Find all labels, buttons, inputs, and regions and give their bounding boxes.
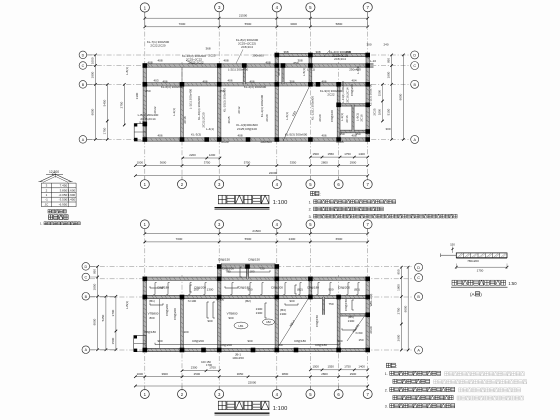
grid bubble A left (top plan) [79,136,87,144]
grid line axis 7 (top plan) [367,12,369,180]
svg-text:1550: 1550 [327,152,334,156]
grid line row D (top plan) [87,54,411,56]
beam row D top edge right section (top plan) [277,53,368,56]
stair diagonal rooms 4-5 (bottom plan) [279,298,309,346]
svg-text:2C8,3C4: 2C8,3C4 [241,45,253,49]
svg-text:1750: 1750 [102,127,106,134]
grid bubble C right (top plan) [411,62,419,70]
svg-text:2800: 2800 [321,161,328,165]
svg-text:KL-1(3) 300x700: KL-1(3) 300x700 [369,84,373,107]
svg-text:900: 900 [228,316,233,320]
svg-text:406: 406 [157,134,162,138]
beam short axis 4b (top plan) [282,66,284,85]
detail title aircon slab 1:50 [452,280,457,285]
svg-text:C8@150: C8@150 [344,299,348,311]
svg-text:1750: 1750 [344,365,351,369]
svg-text:950: 950 [355,132,360,136]
svg-text:1750: 1750 [477,268,484,272]
svg-text:2C22: 2C22 [327,93,335,97]
svg-text:2C18: 2C18 [277,68,281,76]
svg-text:368: 368 [205,47,210,51]
beam row A bottom edge (top plan) [145,138,368,141]
svg-text:L-4(1): L-4(1) [206,127,214,131]
svg-text:750: 750 [259,267,264,271]
svg-text:5800: 5800 [336,22,343,26]
svg-text:9000: 9000 [93,318,97,325]
svg-text:L-11(1) 200x400: L-11(1) 200x400 [341,81,345,103]
left dimension chain (top plan) [95,55,97,139]
beam right edge axis 7 (top plan) [366,55,369,140]
svg-text:D: D [413,54,416,58]
beam axis 5 upper (top plan) [309,55,312,84]
beam row D raised section (bottom plan) [219,265,277,268]
svg-text:1:100: 1:100 [273,200,288,206]
svg-text:(B1): (B1) [149,299,155,303]
columns (top plan) [143,63,148,68]
grid bubble C left (top plan) [79,62,87,70]
dimension line segments (bottom plan top) [145,241,368,243]
svg-text:1800: 1800 [378,108,382,115]
beam axis 4 (top plan) [275,55,278,140]
svg-text:KL-5(3) 300x600: KL-5(3) 300x600 [285,133,308,137]
svg-text:308: 308 [315,50,320,54]
svg-text:1800: 1800 [91,71,95,78]
grid line axis 3 (top plan) [218,12,220,180]
svg-text:300: 300 [385,127,390,131]
annotation leader lines (top plan) [236,50,243,64]
svg-text:L-2(1): L-2(1) [172,108,176,116]
grid line row B (top plan) [87,83,411,85]
svg-text:3800: 3800 [282,372,289,376]
beam axis 6 lower (top plan) [337,84,340,139]
beam interior right y131.5 (top plan) [339,130,368,133]
svg-text:-1: -1 [45,198,48,202]
grid line axis 1 (top plan) [144,12,146,180]
svg-text:2C18: 2C18 [183,116,187,124]
svg-text:C8@100: C8@100 [330,110,334,122]
svg-text:1850: 1850 [93,283,97,290]
svg-text:2400: 2400 [289,237,296,241]
svg-text:1200: 1200 [209,153,216,157]
svg-text:2300: 2300 [191,366,198,370]
grid bubble B left (top plan) [79,81,87,89]
svg-text:780x200: 780x200 [467,259,479,263]
svg-text:650: 650 [145,89,150,93]
svg-text:1900: 1900 [397,284,401,291]
svg-text:h=100: h=100 [216,298,225,302]
svg-text:2C16: 2C16 [360,114,364,122]
svg-text:2C25: 2C25 [373,108,377,116]
bottom dimension row 2 (bottom plan) [135,376,367,378]
svg-text::: : [396,363,397,368]
svg-text:C8@180: C8@180 [238,286,250,290]
right dimension chain 2 (top plan) [402,55,404,139]
slab label ellipse JB1 (bottom plan) [234,322,248,329]
svg-text:403: 403 [153,79,158,83]
svg-text:150: 150 [450,243,455,247]
svg-text:100: 100 [183,330,188,334]
right inner dim labels (top plan) [382,84,384,121]
svg-text:3.850: 3.850 [60,188,68,192]
svg-text:1.: 1. [309,200,312,204]
svg-text:KL-40(3) 300x600: KL-40(3) 300x600 [197,96,201,120]
svg-text:5500: 5500 [245,237,252,241]
grid bubble 7 top [363,3,372,12]
storey table (elevation table) [41,182,76,184]
svg-text:D: D [84,265,87,269]
bottom dimension row 3 total 22000 (bottom plan) [135,385,367,387]
svg-text:L-5(1): L-5(1) [302,68,306,76]
svg-text:KL-2(3) 300x600: KL-2(3) 300x600 [244,85,267,89]
dimension line total 21500 (bottom plan top) [145,233,368,235]
svg-text:C8@150: C8@150 [315,315,319,327]
svg-text:900: 900 [289,299,294,303]
svg-text:L-B(1): L-B(1) [125,301,129,309]
svg-text:-0.050: -0.050 [59,193,68,197]
beam row C top edge (top plan) [145,64,374,67]
svg-text:406: 406 [321,79,326,83]
beam left edge (bottom plan) [143,279,146,350]
corridor line axis 2 upper (top plan) [181,67,183,82]
grid line axis 2 (top plan) [181,62,183,180]
svg-text:2C16;2C14: 2C16;2C14 [346,87,350,103]
svg-text:KL-6(3) 300x600: KL-6(3) 300x600 [161,85,184,89]
svg-text:C: C [82,64,85,68]
svg-text:900: 900 [328,288,333,292]
grid bubble D right (top plan) [411,51,419,59]
grid line axis 4 (top plan) [276,12,278,180]
svg-text:C8@150: C8@150 [248,258,260,262]
svg-text:404: 404 [351,79,356,83]
svg-text:22000: 22000 [269,171,278,175]
svg-text::: : [320,191,321,196]
aircon slab detail section [456,253,507,258]
svg-text:1700: 1700 [206,363,212,367]
svg-text:2C16: 2C16 [345,115,349,123]
right dimension chains (bottom plan) [400,267,402,350]
svg-text:3700: 3700 [111,309,115,316]
svg-text:9000: 9000 [403,305,407,312]
svg-text:C: C [84,276,87,280]
beam axis 4 (bottom plan) [275,267,278,351]
svg-text:300x500: 300x500 [260,140,272,144]
svg-text:2900: 2900 [350,161,357,165]
svg-text:900: 900 [247,339,252,343]
slope diagonal right room (bottom plan) [347,313,367,341]
bottom dimension row 1 left (top plan) [183,157,220,159]
svg-text:1300: 1300 [207,288,214,292]
slab label ellipse JB2 (bottom plan) [263,319,275,325]
svg-text:C8@200: C8@200 [350,84,354,96]
beam axis 2 (bottom plan) [181,297,184,350]
grid bubble 5 top [306,3,315,12]
svg-text:408: 408 [237,134,242,138]
bottom grid bubbles 1-7 (top plan) [140,180,149,189]
right dimension chain (top plan) [391,55,393,139]
svg-text:C8@180: C8@180 [307,286,319,290]
svg-text:2900: 2900 [350,372,357,376]
svg-text:7000: 7000 [179,22,186,26]
svg-text:h=90: h=90 [356,331,363,335]
svg-text:2C22;2C20: 2C22;2C20 [150,43,166,47]
svg-text:1500: 1500 [312,152,319,156]
svg-text:650: 650 [293,61,298,65]
svg-text:C8@200: C8@200 [194,286,206,290]
svg-text:9.100: 9.100 [139,120,147,124]
beam left edge axis 1 (top plan) [143,66,146,140]
stair protrusion bottom-left (bottom plan) [134,336,146,352]
svg-text:2750: 2750 [119,101,123,108]
svg-text:2.: 2. [385,388,388,392]
svg-text:C8@200: C8@200 [338,286,350,290]
svg-text:C8@180: C8@180 [157,286,169,290]
bottom dimension row 1 left (bottom plan) [182,370,219,372]
bottom dimension row 3 total 22000 (top plan) [135,175,367,177]
svg-text:9000: 9000 [91,108,95,115]
beam interior right y314.8 (bottom plan) [339,313,368,316]
svg-text:900: 900 [207,319,212,323]
svg-text:(B3): (B3) [354,288,360,292]
svg-text:800: 800 [149,316,154,320]
svg-text:2750: 2750 [397,307,401,314]
svg-text:950: 950 [387,58,391,63]
svg-text:180: 180 [249,270,254,274]
svg-text:2200: 2200 [189,153,196,157]
svg-text:5450: 5450 [102,99,106,106]
svg-text:300x600: 300x600 [252,54,264,58]
svg-text:3350: 3350 [290,161,297,165]
top grid bubbles (bottom plan) [140,220,149,229]
svg-text:22000: 22000 [248,380,257,384]
svg-text:950: 950 [339,132,344,136]
svg-text:306: 306 [289,79,294,83]
svg-text:1300: 1300 [280,312,287,316]
svg-text:2600: 2600 [397,334,401,341]
svg-text:2C25: 2C25 [208,54,216,58]
svg-text:406: 406 [202,79,207,83]
svg-text:21500: 21500 [239,14,248,18]
svg-text:240: 240 [383,43,388,47]
svg-text:3.: 3. [385,405,388,409]
grid line row A (top plan) [87,139,411,141]
svg-text:150: 150 [358,338,363,342]
right grid bubbles (bottom plan) [415,263,423,271]
svg-text:-3.500: -3.500 [59,198,68,202]
svg-text:2C12: 2C12 [237,106,241,114]
svg-text:1:50: 1:50 [508,281,517,286]
svg-text:406: 406 [162,79,167,83]
grid line row C (top plan) [87,65,411,67]
svg-text:950: 950 [93,269,97,274]
svg-text:408: 408 [265,60,270,64]
svg-text:C8@200: C8@200 [271,286,283,290]
diagonal stair line rooms 4-5 (top plan) [283,85,310,141]
dimension line total 21500 (top plan top) [145,17,368,19]
svg-text:1900: 1900 [387,71,391,78]
svg-text:L-3(1): L-3(1) [340,113,344,121]
svg-text:3750: 3750 [204,161,211,165]
table caption (elevation table) [48,210,51,213]
svg-text:KL-3(3): KL-3(3) [191,133,201,137]
svg-text:2C22: 2C22 [153,106,157,114]
svg-text:2C8,3C4: 2C8,3C4 [334,57,346,61]
svg-text:2C20: 2C20 [318,114,322,122]
svg-text:2C20: 2C20 [221,140,229,144]
beam short axis x244 (top plan) [243,66,245,85]
svg-text:4C25: 4C25 [227,116,231,124]
svg-text:150: 150 [277,343,282,347]
bottom dimension row 2 (top plan) [135,165,367,167]
svg-text:408: 408 [147,60,152,64]
svg-text:1300: 1300 [135,92,139,99]
svg-text:L-10: L-10 [370,59,376,63]
svg-text:5250: 5250 [101,314,105,321]
partition line room 1-2 (bottom plan) [159,299,161,349]
svg-text:406: 406 [249,79,254,83]
svg-text:2500: 2500 [194,372,201,376]
svg-text:2C25 2C22: 2C25 2C22 [188,60,204,64]
svg-text:7000: 7000 [176,237,183,241]
bottom dimension row 1 right (top plan) [310,156,367,158]
beam axis 3 (bottom plan) [217,267,220,351]
svg-text:VTB800: VTB800 [148,312,159,316]
svg-text:D: D [417,266,420,270]
svg-text:750: 750 [219,89,224,93]
left dimension chain 2 (top plan) [106,84,108,139]
svg-text:1550: 1550 [327,365,334,369]
svg-text:5150: 5150 [387,108,391,115]
title: third floor beam plan 1:100 [218,195,226,204]
svg-text:5750: 5750 [244,161,251,165]
grid bubble 4 top [272,3,281,12]
grid bubble A right (top plan) [411,135,419,143]
svg-text:C8@200: C8@200 [192,339,204,343]
svg-text:LB2: LB2 [266,320,271,324]
bubble stems top row (bottom plan) [144,229,146,234]
svg-text:2C25: 2C25 [336,140,344,144]
grid line axis 6 (top plan) [338,62,340,180]
svg-text:C: C [417,276,420,280]
slab rebar marks (bottom plan) [150,287,163,289]
grid bubble 3 top [215,3,224,12]
svg-text:1.: 1. [40,222,43,226]
grid bubble 1 top [140,3,149,12]
beam short raised divider (bottom plan) [246,267,248,279]
left dimension chain 3 (top plan) [123,84,125,125]
bottom grid bubbles 1-7 (bottom plan) [140,390,149,399]
svg-text:2800: 2800 [321,372,328,376]
svg-text:3.: 3. [309,215,312,219]
svg-text:-6.950: -6.950 [59,202,68,206]
svg-text:D: D [82,53,85,57]
svg-text:C8@180: C8@180 [315,343,327,347]
svg-text:750: 750 [225,270,230,274]
svg-text:3000: 3000 [290,22,297,26]
svg-text:(B2): (B2) [245,299,251,303]
stair landing protrusion bottom-left (top plan) [134,124,146,142]
title: third floor slab plan 1:100 [218,401,226,410]
svg-text:2C20: 2C20 [265,114,269,122]
bottom dimension row 1 right (bottom plan) [310,369,367,371]
raised slab outline (bottom plan) [222,263,276,279]
beam row B (top plan) [145,83,368,86]
svg-text:1000: 1000 [137,161,144,165]
svg-text:368: 368 [283,50,288,54]
beam toilet divider (bottom plan) [322,297,324,315]
svg-text:(B2): (B2) [297,288,303,292]
svg-text:6500: 6500 [336,237,343,241]
svg-text:408: 408 [157,59,162,63]
svg-text:406: 406 [321,134,326,138]
svg-text:L-7(1): L-7(1) [307,68,315,72]
svg-text:WKL-2(3): WKL-2(3) [369,294,373,307]
svg-text:3600: 3600 [160,161,167,165]
grid lines vertical (bottom plan) [144,229,146,391]
grid line axis 5 (top plan) [309,12,311,180]
svg-text:900: 900 [337,339,342,343]
svg-text:VTB800: VTB800 [227,312,238,316]
detail dimension 1750 [456,266,507,268]
grid bubble D left (top plan) [79,51,87,59]
beam right edge (bottom plan) [366,279,369,350]
svg-text:950: 950 [397,269,401,274]
svg-text:21500: 21500 [252,229,261,233]
svg-text:1500: 1500 [378,89,382,96]
svg-text:3.600: 3.600 [68,188,76,192]
svg-text:KL-12(1) 300x600: KL-12(1) 300x600 [311,96,315,120]
svg-text:1500: 1500 [111,337,115,344]
svg-text:L-6(1): L-6(1) [285,112,289,120]
beam short right interior x353 (top plan) [352,105,354,132]
svg-text:C8@180: C8@180 [144,330,156,334]
svg-text:L-8(1): L-8(1) [125,67,129,75]
svg-text:C8@180: C8@180 [294,339,306,343]
svg-text:3.900: 3.900 [68,193,76,197]
svg-text:900: 900 [157,339,162,343]
svg-text:300: 300 [366,43,371,47]
beam axis 2 (top plan) [181,84,184,139]
columns (bottom plan) [143,277,148,282]
notes block (top plan) [311,191,315,195]
grid bubble B right (top plan) [411,80,419,88]
svg-text:KL-2(3) 300x600: KL-2(3) 300x600 [260,95,264,118]
beam axis 5 upper (bottom plan) [309,279,312,297]
svg-text:C8@150: C8@150 [218,258,230,262]
svg-text:C8@200: C8@200 [220,343,232,347]
svg-text:C8@200: C8@200 [165,304,169,316]
svg-text:C: C [413,64,416,68]
svg-text:1500: 1500 [312,365,319,369]
grid rows horizontal (bottom plan) [90,266,412,268]
svg-text:406: 406 [227,79,232,83]
svg-text:100x150: 100x150 [232,356,244,360]
svg-text:2C25;C8@100: 2C25;C8@100 [237,127,257,131]
svg-text:2C20: 2C20 [369,326,373,334]
svg-text:3050: 3050 [237,372,244,376]
svg-text:1750: 1750 [344,152,351,156]
notes block (bottom plan) [386,363,390,367]
beam row B (bottom plan) [145,295,368,298]
svg-text:750: 750 [328,302,333,306]
svg-text:2.: 2. [309,208,312,212]
dimension line segments (top plan top) [145,26,368,28]
svg-text:L-1(1) 200x400: L-1(1) 200x400 [189,89,193,110]
svg-text:2C22;2C20: 2C22;2C20 [202,112,206,128]
svg-text:C8@200: C8@200 [173,308,177,320]
left dimension chains (bottom plan) [97,266,99,349]
beam interior right y104.8 (top plan) [339,104,368,107]
svg-text:408: 408 [223,59,228,63]
